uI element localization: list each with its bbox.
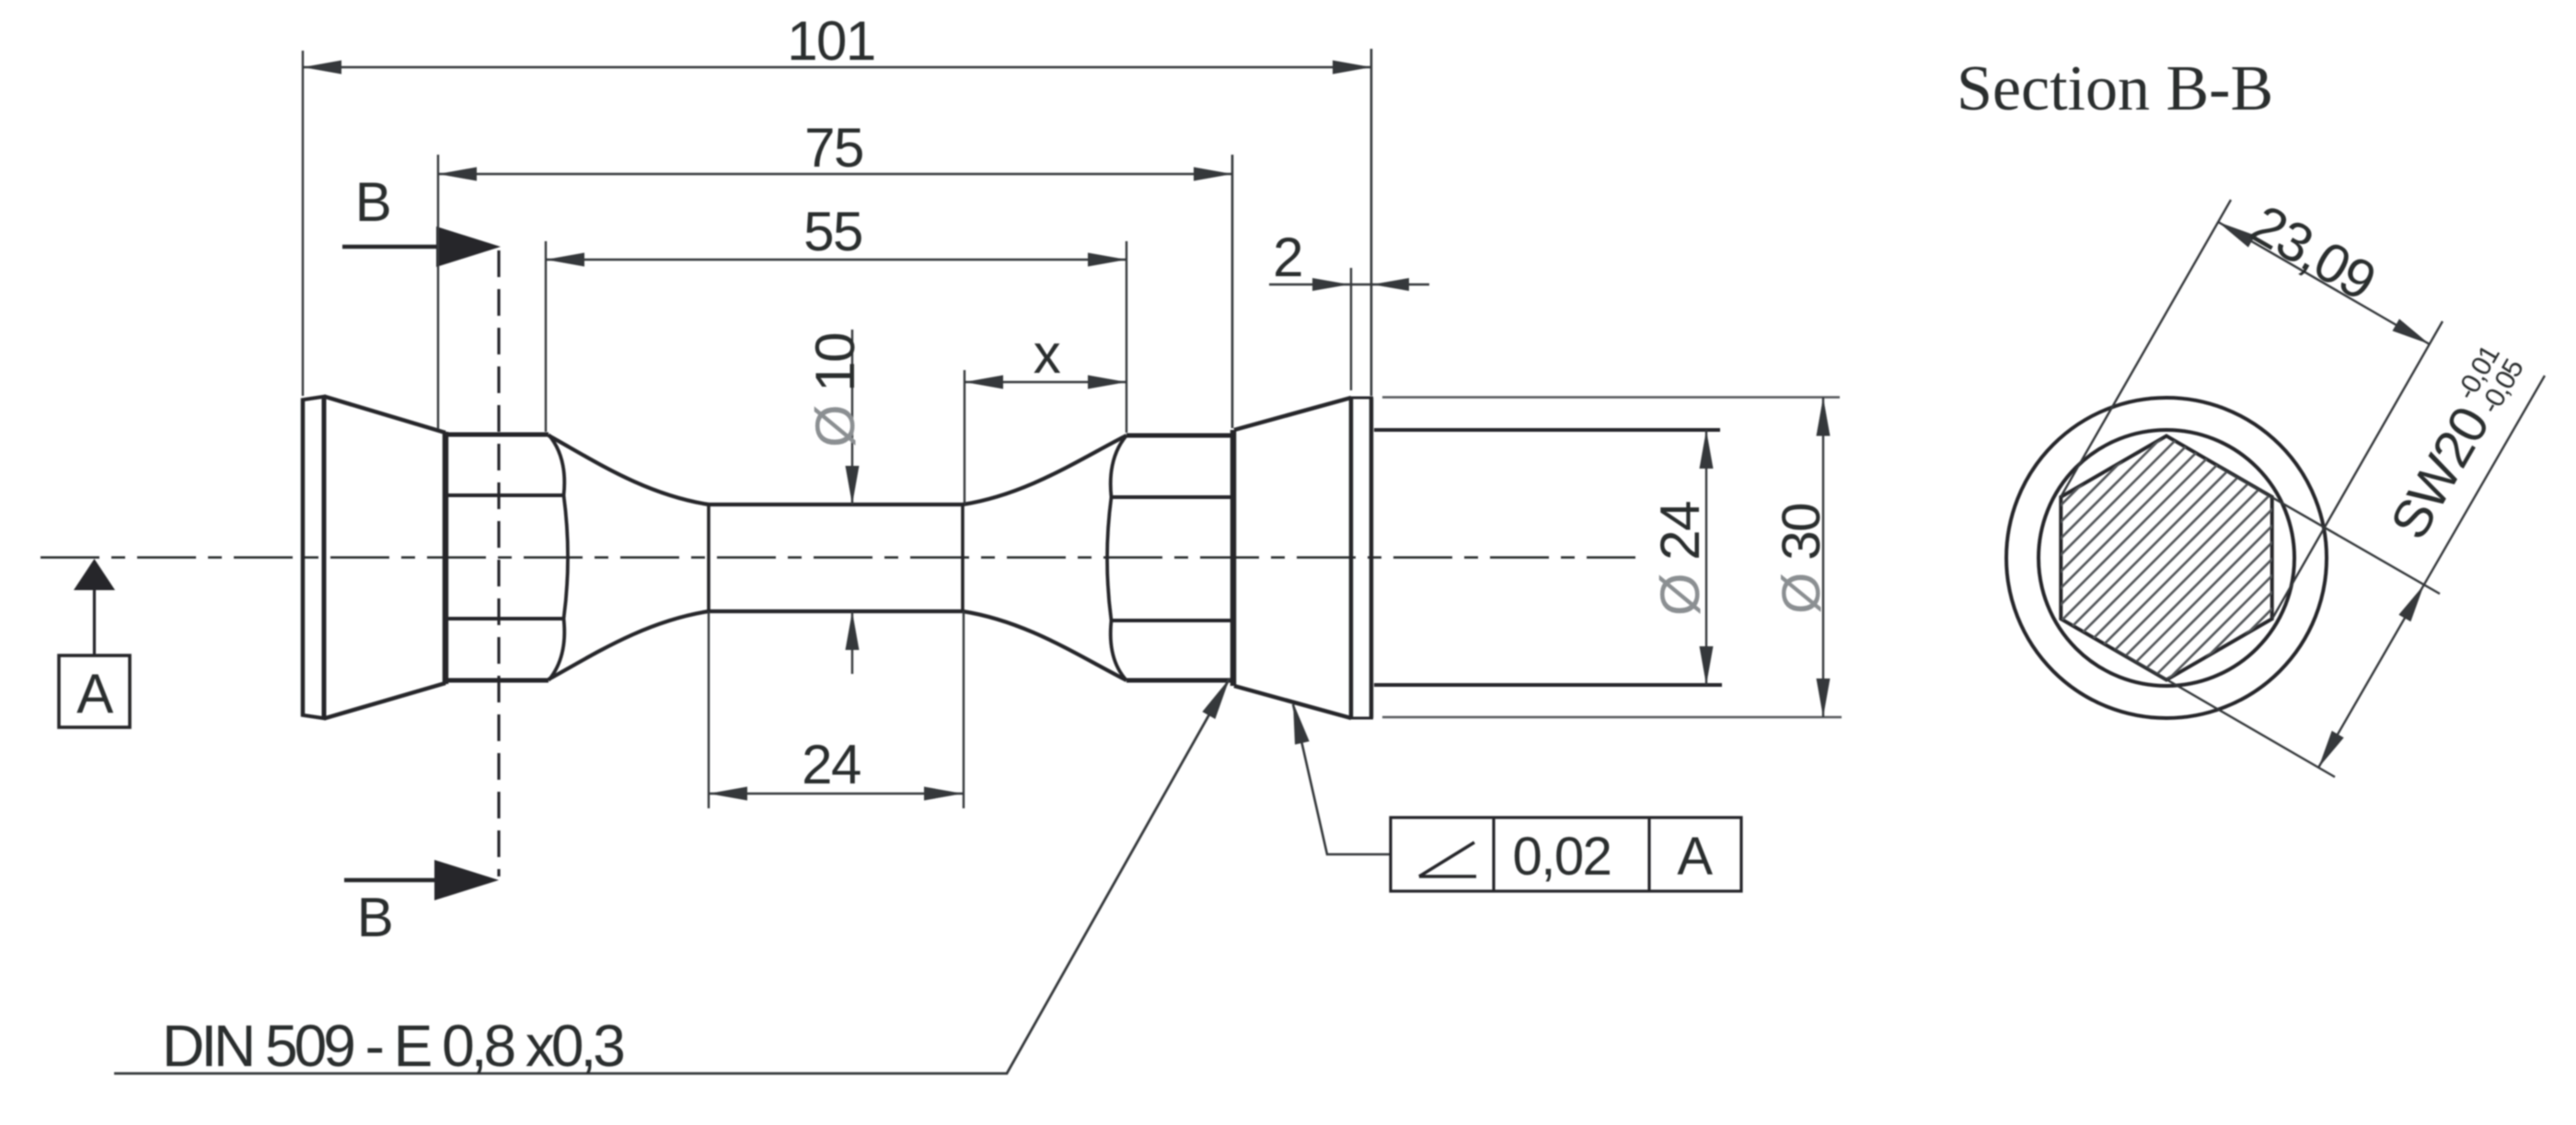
dim dia30 arrow up <box>1817 398 1831 436</box>
dim 75 ext left <box>437 155 439 429</box>
dim 55 ext right <box>1126 241 1127 433</box>
dim 24 ext left <box>708 611 710 808</box>
dim 55 ext left <box>545 241 547 432</box>
DIN 509 leader <box>114 678 1230 1073</box>
dim 2 ext <box>1350 268 1352 390</box>
section arrow B top head <box>436 226 501 267</box>
svg-text:Section B-B: Section B-B <box>1957 53 2273 124</box>
left hex top edge <box>447 433 549 437</box>
svg-text:0,02: 0,02 <box>1513 827 1611 887</box>
dim 75 arrow left <box>438 168 477 181</box>
right hex upper face line <box>1111 495 1231 499</box>
tolerance frame divider 2 <box>1647 818 1650 891</box>
DIN 509 leader arrow <box>1202 678 1230 719</box>
dim 101 arrow right <box>1333 61 1371 75</box>
section arrow B top tail <box>342 245 440 249</box>
svg-text:Ø 10: Ø 10 <box>804 333 866 447</box>
svg-text:A: A <box>76 663 113 725</box>
right hex face <box>1230 430 1237 686</box>
dim 23,09 ext line 2 <box>2272 321 2443 619</box>
dim x ext left upper <box>964 370 965 505</box>
gauge top line <box>709 503 963 506</box>
right fillet top <box>963 435 1126 505</box>
dim SW20 ext line upper <box>2219 467 2440 594</box>
left end disk bottom edge <box>301 715 326 719</box>
flange ring right edge <box>1369 398 1374 718</box>
section line B dashed <box>497 250 500 876</box>
centerline main axis <box>40 556 1635 559</box>
dim 101 line <box>303 66 1371 68</box>
dim 101 arrow left <box>303 61 341 75</box>
section inner circle dia24 <box>2039 430 2294 686</box>
dim 55 line <box>546 259 1126 261</box>
tolerance frame box <box>1391 818 1741 891</box>
dim 101 ext right <box>1370 49 1373 396</box>
left cone top edge <box>324 397 445 434</box>
left end disk right edge <box>322 396 327 719</box>
tolerance leader <box>1293 704 1391 854</box>
dim 23,09 arrow left <box>2218 222 2255 247</box>
dim x arrow right <box>1088 376 1126 389</box>
dim x arrow left <box>965 376 1003 389</box>
dia30 extension bottom <box>1382 716 1842 719</box>
dim dia10 arrow down <box>846 466 860 505</box>
svg-text:DIN 509 - E 0,8 x0,3: DIN 509 - E 0,8 x0,3 <box>162 1013 623 1079</box>
dim dia30 arrow down <box>1817 678 1831 717</box>
dim 75 ext right <box>1231 155 1234 428</box>
dim 75 arrow right <box>1194 168 1232 181</box>
dim dia30 line <box>1822 398 1824 718</box>
right cylinder top line <box>1374 428 1720 432</box>
svg-text:B: B <box>357 887 393 948</box>
dim 24 line <box>709 793 963 794</box>
dim dia10 leader lower <box>851 611 853 674</box>
dim 23,09 arrow right <box>2393 319 2430 343</box>
left fillet top <box>549 435 709 505</box>
svg-text:A: A <box>1677 827 1713 887</box>
svg-text:55: 55 <box>803 201 862 262</box>
dim 55 arrow left <box>546 253 584 267</box>
left hex top corner arc <box>549 435 564 495</box>
right fillet bottom <box>963 611 1126 680</box>
right hex lower face line <box>1111 619 1231 622</box>
dim dia24 line <box>1705 430 1707 685</box>
dim dia10 arrow up <box>846 611 860 650</box>
svg-text:101: 101 <box>787 10 875 72</box>
right cylinder bottom line <box>1374 683 1722 687</box>
section arrow B bottom tail <box>344 878 438 883</box>
svg-text:2: 2 <box>1273 226 1302 288</box>
left cone bottom edge <box>324 683 445 719</box>
dim 23,09 ext line 1 <box>2061 200 2231 497</box>
dim x line <box>965 381 1126 383</box>
right hex middle arc <box>1107 497 1112 620</box>
svg-text:Ø 30: Ø 30 <box>1772 504 1831 614</box>
datum A triangle <box>74 559 115 590</box>
left hex bottom edge <box>447 678 549 683</box>
dim 24 arrow right <box>924 787 963 801</box>
dim SW20 arrow upper <box>2398 585 2424 621</box>
left fillet bottom <box>549 611 709 679</box>
left hex upper face line <box>447 493 563 497</box>
datum A stem <box>93 590 96 655</box>
dim 55 arrow right <box>1088 253 1126 267</box>
svg-text:x: x <box>1034 323 1061 385</box>
dim 2 arrow left <box>1312 278 1349 291</box>
section hexagon SW20 <box>2061 436 2271 680</box>
dim 101 ext left <box>302 51 304 396</box>
right hex top edge <box>1126 434 1231 438</box>
dim x ext left part edge <box>961 503 965 613</box>
dim 23,09 line <box>2218 222 2430 344</box>
right cone top edge <box>1234 398 1351 430</box>
left end disk top edge <box>301 397 326 400</box>
dim SW20 ext line lower <box>2114 649 2335 777</box>
dim 2 line <box>1269 284 1429 285</box>
dim SW20 line <box>2318 376 2545 768</box>
flange ring bottom edge <box>1349 717 1373 720</box>
dim x ext left <box>963 611 965 808</box>
tolerance frame divider 1 <box>1492 818 1495 891</box>
gauge bottom line <box>709 609 963 613</box>
dim dia24 arrow down <box>1700 646 1714 685</box>
left hex lower face line <box>447 617 563 620</box>
dim dia24 arrow up <box>1700 430 1714 469</box>
right cone bottom edge <box>1234 686 1351 718</box>
angularity symbol <box>1419 842 1476 876</box>
right hex bottom corner arc <box>1111 620 1126 680</box>
section outer circle dia30 <box>2006 398 2327 718</box>
dim 24 arrow left <box>709 787 747 801</box>
flange ring left edge <box>1349 398 1354 718</box>
svg-text:75: 75 <box>804 117 863 179</box>
dim 24 ext left part edge <box>707 503 710 613</box>
right hex top corner arc <box>1111 435 1126 497</box>
left end disk left edge <box>301 400 306 715</box>
dim SW20 arrow lower <box>2318 731 2344 768</box>
left hex face <box>443 432 449 684</box>
right hex bottom edge <box>1126 678 1231 683</box>
flange ring top edge <box>1349 397 1373 400</box>
dim 75 line <box>438 173 1232 175</box>
datum A frame <box>59 655 130 727</box>
dia30 extension top <box>1382 396 1840 399</box>
left hex bottom corner arc <box>549 619 564 680</box>
svg-text:B: B <box>355 171 391 233</box>
dim dia10 leader upper <box>851 330 853 505</box>
left hex middle arc <box>564 495 569 619</box>
tolerance leader arrow <box>1293 702 1310 745</box>
dim 2 arrow right <box>1372 278 1409 291</box>
section arrow B bottom head <box>434 860 499 900</box>
svg-text:Ø 24: Ø 24 <box>1649 502 1711 616</box>
svg-text:24: 24 <box>802 734 861 795</box>
